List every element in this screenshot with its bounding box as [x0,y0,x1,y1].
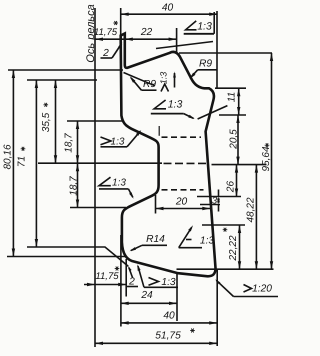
svg-text:R9: R9 [143,79,156,90]
svg-text:11,75: 11,75 [94,27,118,38]
dim 80.16 text [3,144,14,169]
extension at 176.6 [176,28,178,52]
extension B below [125,259,127,297]
svg-text:11: 11 [227,92,238,102]
dim 20 line [156,207,211,210]
extension y247 bent [27,247,128,266]
dim 26 line [235,165,238,197]
extension y225 right [202,224,245,226]
extension right of 40 [216,11,218,88]
extension y196 [197,196,241,198]
dim 35.5 line [54,80,57,163]
svg-text:24: 24 [140,290,153,301]
dim 20.5 text [229,129,240,150]
dim 26 text [226,181,237,194]
axis label Ось рельса [85,4,97,62]
extension y270 [177,268,274,270]
svg-text:11,75: 11,75 [95,271,119,282]
svg-text:40: 40 [163,311,175,322]
dim 48.22 line [255,165,258,270]
extension y121 [67,120,123,122]
extension A above [120,8,122,39]
dim 80.16 line [12,70,15,257]
dim 40 top line [121,13,218,16]
bolt hole bottom (hidden) [162,189,204,191]
dim 51.75 text [155,329,195,342]
slope 1:3 top right [156,12,214,49]
svg-text:40: 40 [162,3,174,14]
extension y88 right [215,87,246,89]
svg-text:18,7: 18,7 [69,176,80,196]
dim 11.75 top text [94,21,118,38]
dim 11.75/22 line [95,38,177,41]
extension A below [120,235,122,327]
dim 3 [212,190,220,212]
label R9 left [130,76,157,90]
dim 22 text [140,27,153,38]
bolt hole top (hidden) [162,136,202,138]
svg-text:1:3: 1:3 [168,98,183,110]
label R9 right [190,59,217,79]
svg-text:1:3: 1:3 [159,72,169,85]
label 2 bottom [127,266,138,288]
dim 40 bottom line [121,321,218,324]
extension y80 [27,79,97,81]
dim 51.75 line [95,342,217,345]
svg-text:3: 3 [212,196,218,207]
extension y207.5 [70,207,126,209]
dim 11.75 bottom text [95,267,119,283]
svg-text:18,7: 18,7 [64,133,75,153]
rail axis line [94,8,96,347]
slope 1:3 bottom center [137,264,178,288]
dim 11 text [227,92,238,102]
svg-text:26: 26 [226,181,237,194]
svg-text:1:3: 1:3 [112,177,126,188]
extension y115 [219,114,246,116]
svg-text:48,22: 48,22 [246,197,257,222]
rail profile outline [121,34,216,277]
extension at 177 bottom [176,274,178,322]
dim 95.64 line [270,53,273,269]
svg-text:51,75: 51,75 [155,331,181,342]
slope 1:3 bottom right [179,225,215,248]
slope 1:3 upper middle [151,98,228,119]
svg-text:20: 20 [175,197,188,208]
svg-text:95,64: 95,64 [261,146,272,171]
svg-text:22: 22 [140,27,153,38]
dim 20.5 line [236,115,239,165]
svg-text:1:3: 1:3 [111,136,125,147]
svg-text:22,22: 22,22 [228,235,239,261]
dim 71 text [17,147,28,167]
dim 11.75 bottom line [84,283,126,286]
slope 1:20 bottom right [215,279,278,296]
extension y53 top right [179,52,272,54]
dim 40 bottom text [163,311,175,322]
horizontal center line [38,163,267,164]
dim 24 text [140,290,153,301]
slope 1:3 upper left [101,130,142,147]
svg-text:1:20: 1:20 [252,284,272,295]
dim 40 top text [162,3,174,14]
svg-text:1:3: 1:3 [161,277,175,288]
label R14 [130,234,168,251]
dim 11 line [237,88,240,115]
dim 35.5 text [41,103,52,132]
dim 18.7 upper text [64,133,75,153]
dim 20 text [175,197,188,208]
dim 18.7 lower line [76,163,79,207]
dim 24 line [121,302,177,305]
dim 71 line [35,80,38,247]
dim 48.22 text [246,197,257,222]
extension y204 [200,204,220,206]
svg-text:1:3: 1:3 [200,236,214,247]
extension y70 [8,69,123,71]
svg-text:R9: R9 [199,59,212,70]
dim 95.64 text [261,143,272,171]
slope 1:3 lower left [99,177,134,199]
dim 22.22 line [238,225,241,269]
web tick [158,126,160,136]
extension y256.5 [7,256,126,258]
dim 18.7 lower text [69,176,80,196]
label 2 top [101,42,123,59]
svg-text:1:3: 1:3 [197,21,212,33]
svg-text:71: 71 [17,156,28,167]
svg-text:R14: R14 [146,234,165,245]
dim 22.22 text [223,228,239,262]
slope 1:3 rotated mid [124,72,176,92]
extension at 217.2 bottom [216,269,218,346]
svg-text:35,5: 35,5 [41,112,52,132]
dim 18.7 upper line [76,121,79,163]
svg-text:20,5: 20,5 [229,129,240,150]
svg-text:80,16: 80,16 [3,144,14,169]
extension at 155.5 [155,195,157,214]
